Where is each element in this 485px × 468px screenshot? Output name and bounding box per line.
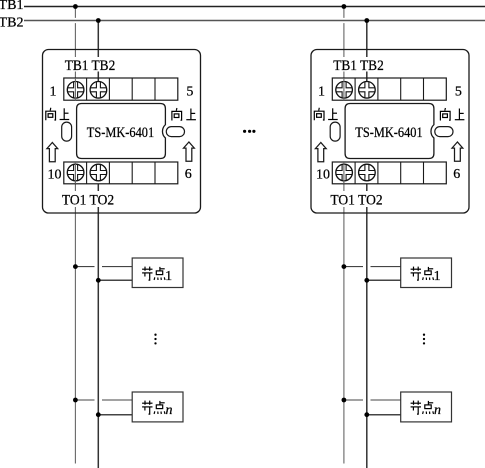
svg-text:TB1: TB1: [0, 0, 23, 13]
svg-text:TB2: TB2: [0, 16, 23, 31]
